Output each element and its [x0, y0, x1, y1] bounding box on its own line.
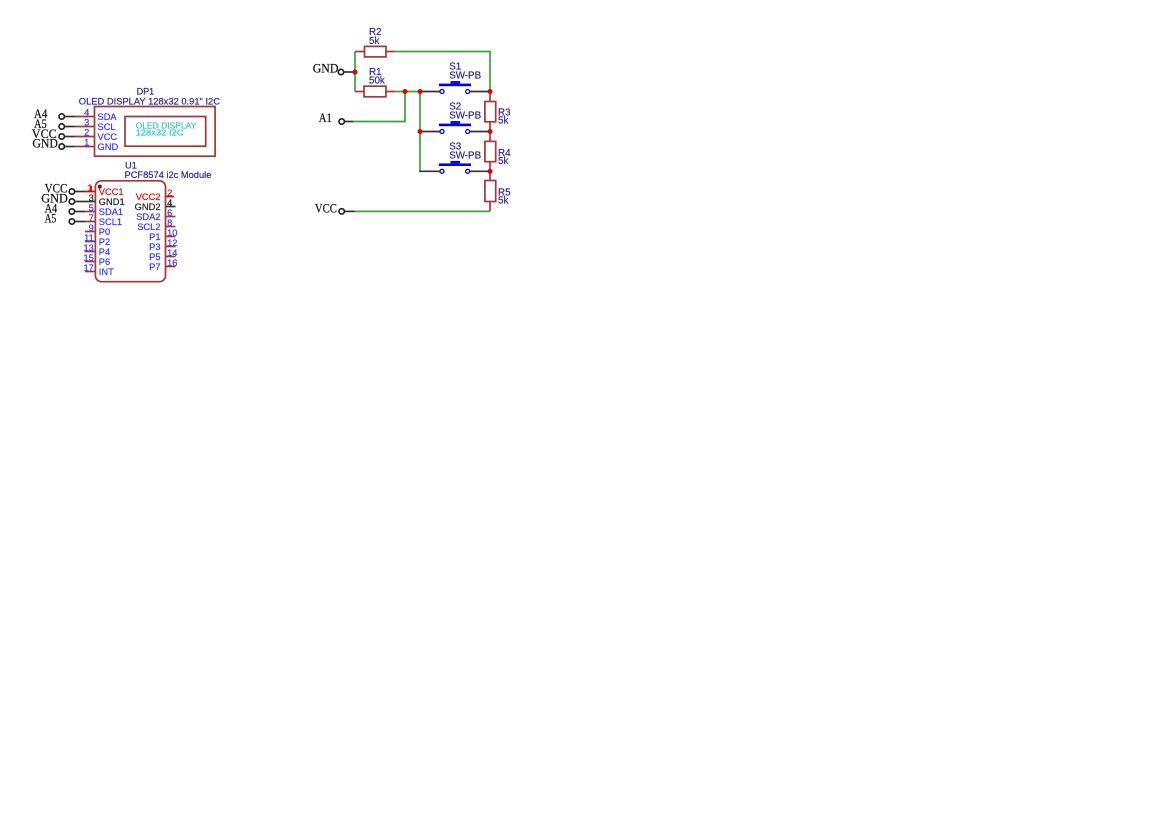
svg-text:VCC: VCC [315, 201, 337, 215]
svg-text:SCL: SCL [98, 122, 116, 132]
svg-text:1: 1 [87, 183, 92, 193]
junction GND [353, 70, 358, 75]
U1 pin 14 P5 [149, 248, 177, 262]
U1 pin 16 P7 [149, 258, 177, 272]
svg-text:P7: P7 [149, 262, 160, 272]
U1 body outline [95, 181, 165, 282]
net flag GND right [313, 61, 355, 75]
U1 pin 3 GND1 [85, 193, 125, 207]
svg-text:SW-PB: SW-PB [449, 150, 481, 161]
svg-text:5k: 5k [498, 115, 508, 126]
svg-text:VCC1: VCC1 [99, 187, 124, 197]
svg-text:GND2: GND2 [135, 202, 161, 212]
resistor R2 [355, 27, 395, 57]
svg-text:P4: P4 [99, 247, 110, 257]
svg-text:8: 8 [167, 218, 172, 228]
svg-text:P2: P2 [99, 237, 110, 247]
svg-text:5: 5 [89, 203, 94, 213]
net flag A1 [319, 111, 353, 125]
net flag GND at U1 [41, 192, 85, 206]
wire A1 to ladder [353, 92, 405, 122]
svg-text:PCF8574 i2c Module: PCF8574 i2c Module [125, 170, 212, 180]
svg-text:10: 10 [167, 228, 177, 238]
svg-text:128x32 I2C: 128x32 I2C [136, 128, 184, 138]
resistor R1 [355, 67, 395, 97]
U1 pin 6 SDA2 [136, 208, 175, 222]
U1 pin 15 P6 [83, 253, 110, 267]
svg-text:P1: P1 [149, 232, 160, 242]
svg-text:SW-PB: SW-PB [449, 71, 481, 82]
resistor R3 [485, 92, 511, 132]
net flag A4 at DP1 [34, 107, 75, 121]
svg-text:SCL2: SCL2 [137, 222, 160, 232]
svg-text:3: 3 [89, 193, 94, 203]
U1 pin 17 INT [83, 263, 114, 277]
U1 pin 7 SCL1 [85, 213, 122, 227]
U1 pin 5 SDA1 [85, 203, 123, 217]
svg-text:SDA: SDA [98, 112, 118, 122]
svg-text:P0: P0 [99, 227, 110, 237]
svg-text:12: 12 [167, 238, 177, 248]
junction S2 right / R3-R4 [488, 129, 493, 134]
DP1 inner screen rect [125, 117, 206, 147]
svg-text:SW-PB: SW-PB [449, 111, 481, 122]
svg-text:VCC2: VCC2 [136, 192, 161, 202]
switch S3 SW-PB [419, 141, 490, 173]
svg-text:4: 4 [84, 108, 89, 118]
switch S2 SW-PB [420, 102, 490, 134]
DP1 pin 2 VCC [75, 128, 118, 142]
svg-text:17: 17 [83, 263, 93, 273]
junction S2 left [418, 129, 423, 134]
wire ladder left vertical S2-S3 [419, 132, 421, 172]
svg-text:3: 3 [84, 118, 89, 128]
wire R2 right to top right corner [395, 52, 491, 92]
svg-text:7: 7 [89, 213, 94, 223]
svg-text:16: 16 [167, 258, 177, 268]
wire VCC to R5 [355, 210, 490, 212]
svg-text:GND1: GND1 [99, 197, 125, 207]
net flag VCC at U1 [45, 182, 85, 196]
svg-text:2: 2 [84, 128, 89, 138]
svg-text:4: 4 [167, 198, 172, 208]
U1 pin 9 P0 [85, 223, 110, 237]
U1 pin 4 GND2 [135, 198, 176, 212]
net flag GND at DP1 [32, 137, 74, 151]
U1 pin 1 VCC1 [85, 183, 124, 197]
junction S3 right / R4-R5 [488, 169, 493, 174]
svg-text:P3: P3 [149, 242, 160, 252]
net flag A4 at U1 [45, 202, 85, 216]
svg-text:GND: GND [313, 61, 339, 75]
junction S1 left [418, 89, 423, 94]
U1 pin 8 SCL2 [137, 218, 175, 232]
svg-text:A5: A5 [45, 212, 57, 226]
svg-text:SDA2: SDA2 [136, 212, 160, 222]
net flag A5 at U1 [45, 212, 85, 226]
svg-text:5k: 5k [369, 36, 379, 47]
DP1 pin 3 SCL [75, 118, 116, 132]
svg-text:P5: P5 [149, 252, 160, 262]
net flag A5 at DP1 [34, 117, 75, 131]
U1 pin 10 P1 [149, 228, 177, 242]
svg-text:6: 6 [167, 208, 172, 218]
U1 pin 2 VCC2 [136, 188, 174, 202]
svg-text:1: 1 [84, 138, 89, 148]
DP1 pin 1 GND [75, 138, 119, 152]
svg-text:VCC: VCC [98, 132, 118, 142]
U1 pin 13 P4 [83, 243, 110, 257]
wire GND vertical [354, 52, 356, 92]
svg-text:9: 9 [89, 223, 94, 233]
DP1 pin 4 SDA [75, 108, 118, 122]
resistor R5 [485, 171, 511, 211]
svg-text:5k: 5k [498, 196, 508, 207]
svg-text:14: 14 [167, 248, 177, 258]
svg-text:GND: GND [32, 137, 58, 151]
U1 pin 11 P2 [84, 233, 110, 247]
svg-text:2: 2 [167, 188, 172, 198]
net flag VCC right [315, 201, 355, 215]
wire ladder left vertical S1-S2 [419, 92, 421, 132]
svg-text:P6: P6 [99, 257, 110, 267]
svg-text:A1: A1 [319, 111, 332, 125]
svg-text:SCL1: SCL1 [99, 217, 122, 227]
U1 pin1 marker dot [98, 185, 102, 189]
svg-text:SDA1: SDA1 [99, 207, 123, 217]
svg-text:INT: INT [99, 267, 114, 277]
switch S1 SW-PB [420, 62, 490, 94]
svg-text:GND: GND [98, 142, 119, 152]
svg-text:11: 11 [84, 233, 94, 243]
net flag VCC at DP1 [32, 127, 75, 141]
wire R1 right to junctions [395, 91, 420, 93]
resistor R4 [485, 132, 511, 172]
DP1 body outline [95, 107, 216, 157]
U1 pin 12 P3 [149, 238, 177, 252]
svg-text:5k: 5k [498, 156, 508, 167]
junction A1/R1 node [403, 89, 408, 94]
svg-text:50k: 50k [369, 76, 385, 87]
svg-text:DP1: DP1 [137, 86, 155, 96]
svg-text:OLED DISPLAY 128x32 0.91" I2C: OLED DISPLAY 128x32 0.91" I2C [79, 96, 220, 106]
svg-text:13: 13 [83, 243, 93, 253]
svg-text:U1: U1 [125, 160, 137, 170]
svg-text:15: 15 [83, 253, 93, 263]
junction S1 right / R3 top [488, 89, 493, 94]
